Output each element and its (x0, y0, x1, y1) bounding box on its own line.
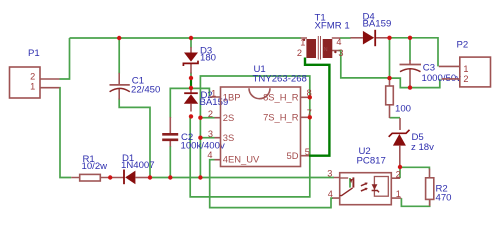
svg-text:2: 2 (297, 48, 302, 58)
optocoupler U2 PC817 (333, 173, 402, 205)
junction: secondary return at 100R (387, 76, 391, 80)
svg-text:N: N (324, 47, 328, 53)
capacitor C3 (400, 60, 422, 86)
wire: source top loop to pins 7,8 (200, 76, 309, 118)
junction: top rail at C1 (117, 36, 121, 40)
wire: bottom rail (minus) (150, 177, 334, 179)
junction: D5 cathode / U2 pin2 / R2 node (398, 165, 402, 169)
junction: top rail at D3 (189, 36, 193, 40)
junction: bottom rail at source tie (198, 175, 202, 179)
svg-text:8S_H_R: 8S_H_R (263, 92, 299, 103)
resistor R1 (71, 174, 123, 181)
wire: primary top rail (70, 37, 301, 39)
svg-text:4: 4 (336, 37, 341, 47)
wire: C2 bottom to rail (169, 146, 171, 178)
svg-text:22/450: 22/450 (131, 85, 160, 96)
svg-text:180: 180 (200, 53, 216, 64)
wire: EN_UV pin4 to U2 pin4 (210, 160, 333, 208)
connector P1 (10, 67, 60, 98)
svg-text:3S: 3S (223, 132, 234, 143)
transformer T1 XFMR 1 (301, 36, 341, 60)
svg-text:BA159: BA159 (363, 19, 392, 30)
junction: U1 pin8 (308, 95, 312, 99)
wire: C1 bottom to rail (119, 99, 150, 178)
svg-text:XFMR 1: XFMR 1 (315, 21, 350, 32)
junction: U1 pin3 source tie (198, 136, 202, 140)
wire: 100R bottom jog to D5 (390, 117, 401, 119)
svg-text:TNY263-268: TNY263-268 (253, 74, 307, 85)
wire: D5 cathode node to R2 top (400, 167, 429, 169)
wire: C3 top riser (409, 38, 411, 61)
resistor R2 470 (426, 169, 434, 206)
capacitor C2 (162, 117, 178, 147)
zener D5 z18v (389, 118, 410, 167)
svg-text:P2: P2 (457, 40, 469, 51)
resistor 100 (snubber) (386, 79, 394, 118)
svg-text:3: 3 (208, 129, 213, 139)
svg-text:1: 1 (30, 81, 35, 91)
svg-text:7S_H_R: 7S_H_R (263, 112, 299, 123)
svg-text:2: 2 (396, 170, 401, 180)
diode D2 BA159 (184, 88, 198, 112)
junction: output rail at 100R riser (387, 36, 391, 40)
capacitor C1 (110, 73, 130, 100)
svg-text:1: 1 (300, 37, 305, 47)
svg-text:1BP: 1BP (223, 92, 241, 103)
wire: D4 cathode rail to P2 pin1 (388, 38, 439, 67)
wire: D5 node down to U2 pin2 (399, 167, 401, 178)
svg-text:PC817: PC817 (357, 156, 386, 167)
junction: rail between R1 and D1 (108, 175, 112, 179)
svg-text:4: 4 (328, 189, 333, 199)
wire: clamp junction to U1 pin1 BP (191, 88, 209, 96)
svg-text:4: 4 (207, 150, 212, 160)
wire: dark green link between clamp dots (190, 78, 192, 88)
wire: P1 pin2 to top rail (60, 38, 70, 79)
wire: D3 bar to junction dot (190, 73, 192, 79)
diode D4 BA159 (350, 30, 387, 46)
svg-text:3: 3 (327, 168, 332, 178)
wire: pin2 stub link (200, 117, 214, 119)
junction: clamp node D2 cathode / C2 / BP (189, 86, 193, 90)
wire: P1 pin1 down to bottom rail (60, 88, 72, 178)
wire: T1 pin4 to D4 anode (340, 37, 351, 39)
svg-text:2: 2 (208, 109, 213, 119)
svg-text:100k/400v: 100k/400v (181, 141, 225, 152)
wire: D2 anode down and over to pin7 (source loop) (190, 116, 310, 196)
svg-text:1: 1 (396, 189, 401, 199)
svg-text:1: 1 (211, 89, 216, 99)
svg-text:2: 2 (463, 74, 468, 84)
svg-text:2S: 2S (223, 112, 234, 123)
wire: drain net T1 pin2 to U1 pin5 (dark green) (305, 58, 329, 156)
svg-text:C3: C3 (423, 63, 435, 74)
svg-text:4EN_UV: 4EN_UV (223, 154, 260, 165)
svg-text:470: 470 (436, 193, 452, 204)
svg-text:P1: P1 (28, 48, 40, 59)
diode D3 (TVS 180) (183, 47, 198, 74)
junction: bottom rail at C2 (168, 175, 172, 179)
junction: output rail at C3 (408, 36, 412, 40)
IC U1 TNY263-268 (210, 87, 310, 167)
svg-text:3: 3 (338, 48, 343, 58)
wire: secondary return jog to P2 pin2 (390, 78, 440, 88)
svg-text:2: 2 (30, 71, 35, 81)
junction: U1 pin7 (308, 115, 312, 119)
wire: U2 pin1 to R2 bottom (401, 198, 429, 206)
junction: secondary return at C3 bottom (408, 85, 412, 89)
junction: bottom rail at D1 anode / C1 branch (148, 175, 152, 179)
junction: D2 anode node (189, 114, 193, 118)
svg-text:100: 100 (395, 104, 411, 115)
svg-text:5: 5 (305, 147, 310, 157)
wire: riser rail to 100R top junction (389, 38, 391, 79)
wire: D3 top lead (green part) (190, 38, 192, 48)
diode D1 1N4007 (124, 170, 150, 185)
svg-text:1: 1 (463, 64, 468, 74)
wire: C1 top riser (118, 38, 120, 74)
svg-text:5D: 5D (287, 150, 299, 161)
junction: U1 pin2 source tie (198, 116, 202, 120)
svg-text:z 18v: z 18v (411, 142, 434, 153)
connector P2 (439, 57, 491, 87)
wire: T1 pin3 to secondary return (339, 51, 390, 78)
wire: clamp junction to C2 (170, 88, 191, 118)
wire: source tie pins 2,3 down to rail (199, 118, 201, 178)
wire: pin3 stub link (200, 137, 214, 139)
svg-text:1N4007: 1N4007 (121, 160, 155, 171)
junction: clamp node D3-D2 upper (189, 76, 193, 80)
svg-text:10/2w: 10/2w (82, 161, 108, 172)
